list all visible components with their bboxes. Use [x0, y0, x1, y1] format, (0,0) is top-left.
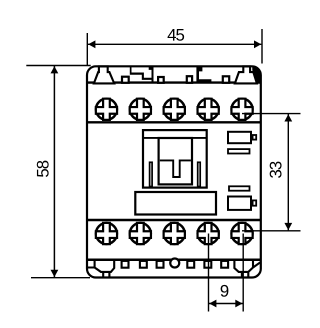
top screw 5: [231, 99, 252, 120]
top screw 4: [198, 99, 219, 120]
dim 33 dimension line: [287, 114, 289, 230]
bottom screw 2: [130, 223, 151, 244]
top small square 4: [223, 76, 229, 83]
dim 58 top arrow: [51, 66, 59, 73]
top-left clip hat: [94, 66, 114, 83]
dim 45 left arrow: [88, 40, 95, 48]
top-right clip hat: [235, 66, 257, 83]
bottom screw 5: [231, 223, 252, 244]
top right-angle bar: [149, 67, 154, 83]
bottom screw 3: [164, 223, 185, 244]
coil terminal thin bottom: [229, 186, 250, 190]
dim 9 dimension line: [209, 303, 243, 305]
contactor body outline: [87, 66, 261, 277]
dim 45 right arrow: [254, 40, 261, 48]
central top band line: [143, 137, 207, 139]
right foot clip lines: [234, 260, 260, 277]
bottom screw 4: [198, 223, 219, 244]
label plate rect: [135, 192, 216, 215]
top screw 3: [164, 99, 185, 120]
top small square 2: [158, 77, 164, 83]
dim 58 bottom extension line: [31, 277, 90, 279]
dim 33 bottom arrow: [284, 223, 292, 230]
bottom center circle marker: [170, 259, 179, 268]
top-right corner black wedge: [252, 66, 261, 82]
bottom hanging square 5: [204, 261, 211, 268]
dim 58 bottom arrow: [51, 270, 59, 277]
coil terminal block bottom: [253, 200, 257, 205]
dim 45 right extension line: [261, 29, 263, 64]
dim 33 top arrow: [284, 114, 292, 121]
dim 33 top extension line: [242, 113, 301, 115]
top strip bottom line: [88, 81, 261, 83]
top screw 1: [96, 99, 117, 120]
central mechanism outer rect: [143, 130, 207, 188]
left latch: [150, 162, 153, 186]
dim 58 top extension line: [26, 65, 90, 67]
line above bottom screw row: [88, 219, 261, 221]
bottom hanging square 1: [122, 261, 129, 268]
bottom screw 1: [96, 223, 117, 244]
line under top screw row: [88, 121, 261, 123]
central shelf with slot: [160, 160, 191, 177]
dim 9 right arrow: [235, 300, 242, 308]
right latch: [198, 162, 201, 186]
dim 45 left extension line: [86, 33, 88, 65]
coil terminal thin top: [228, 149, 250, 153]
bottom hanging square 6: [221, 261, 228, 268]
top staircase bar: [130, 67, 154, 80]
top L-shape bar: [196, 67, 211, 83]
line below bottom screw row: [88, 258, 261, 261]
left foot clip lines: [88, 260, 114, 277]
dim 9 left extension line: [208, 234, 210, 312]
bottom hanging square 2: [140, 261, 147, 268]
dim 9 left arrow: [209, 300, 216, 308]
dim 33 text: [270, 162, 282, 178]
dim 9 right extension line: [242, 234, 244, 312]
dim 9 text: [221, 285, 229, 297]
dim 45 dimension line: [88, 43, 261, 45]
dim 58 text: [37, 161, 49, 177]
bottom hanging square 3: [157, 261, 164, 268]
dim 58 dimension line: [53, 66, 55, 277]
dim 33 bottom extension line: [242, 230, 301, 232]
bottom hanging square 4: [187, 261, 194, 268]
central window rect: [159, 138, 192, 184]
dim 45 text: [168, 29, 185, 41]
top small square 3: [187, 76, 192, 83]
top screw 2: [130, 99, 151, 120]
coil terminal block top: [253, 135, 257, 140]
top small square 1: [122, 77, 129, 83]
